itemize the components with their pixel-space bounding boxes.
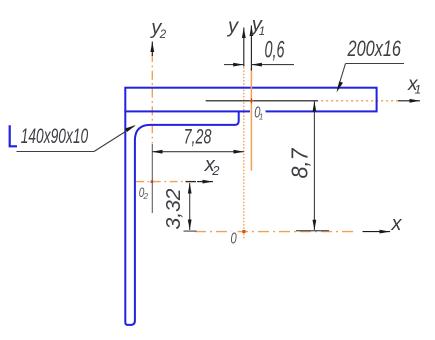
axis x1 (through plate centroid O1, dotted right part) <box>316 99 420 103</box>
dimension 0,6 (between y and y1) <box>224 63 294 67</box>
svg-text:8,7: 8,7 <box>287 147 313 178</box>
leader for 200x16 <box>337 64 405 93</box>
svg-text:x1: x1 <box>407 74 421 97</box>
svg-text:x: x <box>391 213 403 235</box>
axis y2 (through angle centroid O2) <box>150 42 154 144</box>
dimension 7,28 (between y2 and y) <box>152 144 244 213</box>
svg-text:y2: y2 <box>149 17 167 41</box>
angle 140x90x10 outline <box>125 111 238 325</box>
angle section glyph <box>10 125 17 146</box>
axis x2 (through angle centroid O2) <box>136 180 213 184</box>
leader for 140x90x10 <box>17 125 136 152</box>
svg-text:7,28: 7,28 <box>184 125 212 148</box>
dimension 8,7 (x1 down to x) <box>296 101 329 230</box>
axis y (through section centroid O, dotted) <box>242 28 246 240</box>
white mask for O1 label over plate bottom edge <box>250 103 266 119</box>
svg-text:y: y <box>226 16 239 38</box>
svg-text:0,6: 0,6 <box>265 37 285 64</box>
plate 200x16 outline <box>125 88 376 112</box>
axis x (through section centroid O) <box>195 230 390 234</box>
x1 reference line through plate (solid gray) <box>206 100 318 102</box>
dimension 3,32 (x2 down to x) <box>184 182 197 232</box>
svg-text:02: 02 <box>139 184 149 201</box>
red cross at O1 (y1 crossing x1) <box>249 98 254 103</box>
svg-text:3,32: 3,32 <box>163 189 185 230</box>
svg-text:200x16: 200x16 <box>347 36 402 61</box>
red dot at O2 <box>151 180 154 183</box>
svg-text:x2: x2 <box>204 154 221 178</box>
red dot at origin O <box>242 230 245 233</box>
white mask for origin label <box>229 231 238 245</box>
svg-text:y1: y1 <box>250 14 265 38</box>
svg-text:140x90x10: 140x90x10 <box>21 125 89 148</box>
axis y1 (through plate centroid O1, solid lower part) <box>250 26 254 171</box>
svg-text:0: 0 <box>231 231 237 248</box>
